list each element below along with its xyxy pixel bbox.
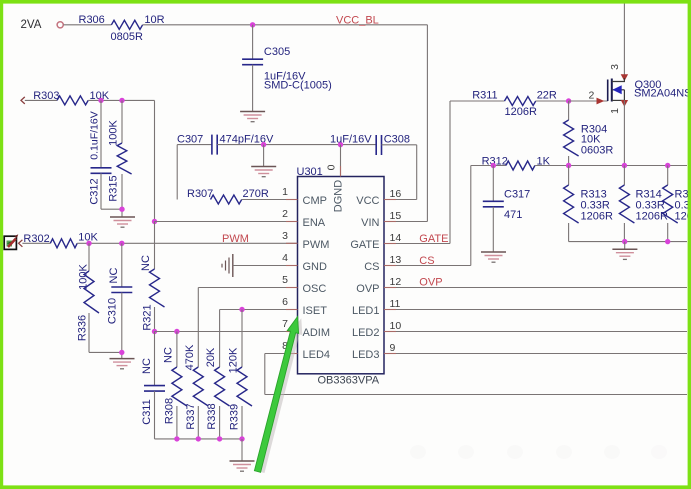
svg-text:1206R: 1206R <box>636 211 668 223</box>
svg-text:C317: C317 <box>504 189 530 201</box>
resistor R321 bottom lead <box>154 307 156 332</box>
wire VCC_BL riser down to VIN <box>426 25 428 222</box>
svg-text:R315: R315 <box>108 175 120 201</box>
wire pin 0 stub to IC <box>340 145 342 177</box>
svg-text:C312: C312 <box>89 178 101 204</box>
svg-text:CS: CS <box>364 261 379 273</box>
resistor R339 zigzag <box>237 367 252 406</box>
svg-text:0.1uF/16V: 0.1uF/16V <box>89 111 101 159</box>
svg-text:GND: GND <box>303 261 328 273</box>
junction dot R336 tap <box>86 241 91 246</box>
svg-text:15: 15 <box>390 210 402 222</box>
resistor R315 top lead <box>121 100 123 143</box>
wire rail ground stub <box>624 242 626 249</box>
transistor Q300 source vertical <box>623 90 625 101</box>
resistor R338 zigzag <box>215 367 230 406</box>
svg-text:R308: R308 <box>163 398 175 424</box>
junction dot C305 tap <box>250 22 255 27</box>
svg-text:PWM: PWM <box>222 233 249 245</box>
resistor R337 zigzag <box>193 367 208 406</box>
resistor R313 top lead <box>568 166 570 186</box>
junction dot R315 C312 ground node <box>119 207 124 212</box>
resistor R321 zigzag <box>150 269 165 307</box>
resistor R304 top lead <box>568 101 570 120</box>
svg-text:R336: R336 <box>77 315 89 341</box>
svg-text:OB3363VPA: OB3363VPA <box>318 375 380 387</box>
junction dot C317 tap <box>491 163 496 168</box>
svg-text:OVP: OVP <box>356 283 379 295</box>
svg-text:16: 16 <box>390 188 402 200</box>
capacitor C310 top lead <box>121 243 123 287</box>
svg-text:R337: R337 <box>185 403 197 429</box>
wire bottom bank rail <box>155 438 243 440</box>
annotation arrow shadow <box>259 318 303 473</box>
svg-text:ISET: ISET <box>303 305 328 317</box>
junction dot bottom rail R314 <box>622 239 627 244</box>
page edge edit icon <box>4 234 18 249</box>
svg-text:1206R: 1206R <box>581 211 613 223</box>
svg-text:LED4: LED4 <box>303 349 331 361</box>
resistor R304 bottom lead <box>568 156 570 166</box>
wire R312 to sense rail <box>535 165 569 167</box>
capacitor C311 plates <box>144 385 165 387</box>
svg-text:7: 7 <box>282 318 288 330</box>
svg-text:22R: 22R <box>537 90 557 102</box>
capacitor C311 bottom lead <box>154 391 156 439</box>
svg-text:5: 5 <box>282 274 288 286</box>
svg-text:ADIM: ADIM <box>303 327 331 339</box>
Q300 gate pin arrow <box>597 98 605 105</box>
resistor R311 zigzag <box>505 97 536 106</box>
terminal circle J-2VA <box>57 22 63 28</box>
resistor R314 zigzag <box>619 185 634 223</box>
wire ground to pin 4 GND <box>233 265 298 267</box>
junction dot ground tap <box>261 142 266 147</box>
junction dot bottom rail third resistor <box>665 239 670 244</box>
resistor R339 bottom lead <box>241 406 243 439</box>
capacitor C305 lead from top rail <box>252 25 254 59</box>
svg-text:0: 0 <box>326 164 338 170</box>
pin stubs right side <box>384 200 396 354</box>
junction dot R338 bottom <box>217 436 222 441</box>
svg-text:VCC_BL: VCC_BL <box>336 15 379 27</box>
junction dot R337 bottom <box>196 436 201 441</box>
resistor R315 top lead <box>667 166 669 186</box>
ground below C307 rail <box>251 167 276 177</box>
svg-text:6: 6 <box>282 296 288 308</box>
svg-text:VIN: VIN <box>361 217 379 229</box>
svg-text:GATE: GATE <box>350 239 379 251</box>
resistor R315 zigzag <box>117 143 131 174</box>
pin 0 stub tint <box>340 166 342 177</box>
junction dot R308 bottom <box>174 436 179 441</box>
transistor Q300 body arrow <box>612 85 621 94</box>
wire riser to R312 <box>471 165 506 167</box>
svg-text:C308: C308 <box>384 133 410 145</box>
svg-text:ENA: ENA <box>303 217 326 229</box>
transistor Q300 drain line from top <box>623 4 625 76</box>
IC U301 body <box>298 177 385 374</box>
svg-text:9: 9 <box>390 342 396 354</box>
junction dot C310 R336 ground node <box>119 350 124 355</box>
resistor R312 zigzag <box>506 161 535 170</box>
svg-text:1: 1 <box>609 108 621 114</box>
wire C312 bottom to R315 bottom <box>101 208 122 210</box>
wire to pin 2 ENA <box>155 221 298 223</box>
svg-text:11: 11 <box>390 298 401 310</box>
wire R306 to VCC_BL corner <box>143 24 428 26</box>
wire ISET line <box>220 309 298 311</box>
wire pin 11 LED1 to edge <box>384 309 687 311</box>
junction dot sense node third resistor <box>665 163 670 168</box>
Q300 drain pin arrow <box>621 74 628 81</box>
terminal R303 input <box>21 97 25 104</box>
resistor R304 zigzag <box>564 120 579 156</box>
svg-text:1206R: 1206R <box>505 106 537 118</box>
resistor R336 zigzag <box>84 271 99 313</box>
resistor R314 bottom lead <box>623 223 625 242</box>
svg-text:LED3: LED3 <box>352 349 380 361</box>
transistor Q300 source stub <box>612 99 625 101</box>
capacitor C312 plates <box>91 167 112 169</box>
capacitor C305 lead to ground <box>252 65 254 112</box>
resistor R337 bottom lead <box>197 406 199 439</box>
resistor R339 top lead <box>241 310 243 368</box>
svg-text:20K: 20K <box>205 347 217 367</box>
svg-text:R338: R338 <box>206 403 218 429</box>
junction dot R315 tap <box>119 98 124 103</box>
resistor R315 zigzag <box>663 185 678 223</box>
svg-text:LED2: LED2 <box>352 327 380 339</box>
resistor R338 top lead <box>219 310 221 368</box>
svg-text:VCC: VCC <box>356 195 379 207</box>
wire R307 to pin 1 CMP <box>242 199 298 201</box>
resistor R308 zigzag <box>172 367 187 406</box>
capacitor C317 top lead <box>492 166 494 202</box>
svg-text:NC: NC <box>141 358 153 374</box>
junction dot ADIM node <box>152 329 157 334</box>
resistor R308 top lead <box>176 332 178 368</box>
svg-text:C310: C310 <box>107 298 119 324</box>
resistor R302 zigzag <box>50 239 77 248</box>
wire riser to R311 <box>450 100 505 102</box>
svg-text:U301: U301 <box>297 166 323 178</box>
resistor R313 zigzag <box>564 185 579 223</box>
svg-text:NC: NC <box>108 268 120 284</box>
svg-text:OVP: OVP <box>419 276 442 288</box>
svg-text:PWM: PWM <box>303 239 330 251</box>
junction dot sense node Q300 source <box>622 163 627 168</box>
resistor R306 zigzag <box>111 20 142 29</box>
svg-text:C307: C307 <box>177 134 203 146</box>
capacitor C305 plates <box>242 58 263 60</box>
wire sense bottom rail <box>569 241 687 243</box>
wire pin 9 LED3 to edge <box>384 353 687 355</box>
svg-text:NC: NC <box>140 255 152 271</box>
wire C307 left plate loop <box>177 144 212 146</box>
wire pin 12 OVP to edge <box>384 287 687 289</box>
Q300 source pin arrow <box>621 100 628 107</box>
junction dot gate node <box>566 98 571 103</box>
wire C308 right plate to VCC pin 16 <box>382 144 417 146</box>
svg-text:0603R: 0603R <box>581 145 613 157</box>
wire ADIM line <box>155 331 298 333</box>
ground below resistor bank <box>230 461 255 471</box>
capacitor C310 bottom lead <box>121 293 123 359</box>
junction dot sense node R313 <box>566 163 571 168</box>
resistor R314 top lead <box>623 166 625 186</box>
resistor R315 bottom lead <box>121 174 123 217</box>
resistor R307 zigzag <box>211 195 242 204</box>
svg-text:10: 10 <box>390 320 402 332</box>
wire terminal to R302 <box>22 242 50 244</box>
capacitor C317 bottom lead <box>492 207 494 252</box>
wire pin 13 CS to riser <box>384 265 471 267</box>
svg-text:470K: 470K <box>184 344 196 370</box>
wire ENA riser down <box>154 100 156 221</box>
svg-text:471: 471 <box>504 209 522 221</box>
capacitor C308 plates <box>375 135 377 155</box>
svg-text:2: 2 <box>282 208 288 220</box>
svg-text:R321: R321 <box>142 304 154 330</box>
resistor R336 bottom lead and jog <box>88 313 90 352</box>
svg-text:14: 14 <box>390 232 402 244</box>
wire C307 right plate to C308 <box>217 144 376 146</box>
wire 2VA terminal to R306 <box>64 24 112 26</box>
transistor Q300 body line <box>612 89 625 91</box>
svg-text:4: 4 <box>282 252 288 264</box>
svg-text:270R: 270R <box>243 188 269 200</box>
wire R303 to ENA riser <box>88 99 154 101</box>
svg-text:2VA: 2VA <box>21 19 42 31</box>
wire to pin 15 VIN <box>384 221 427 223</box>
svg-text:1: 1 <box>282 186 288 198</box>
wire R311 to gate node <box>536 100 569 102</box>
wire gate node to Q300 gate <box>569 100 608 102</box>
transistor Q300 gate bar <box>607 80 609 102</box>
ground below sense rail <box>612 249 637 259</box>
svg-text:NC: NC <box>162 347 174 363</box>
junction dot ISET R339 tap <box>239 307 244 312</box>
junction dot C310 tap <box>119 241 124 246</box>
svg-text:R339: R339 <box>229 404 241 430</box>
capacitor C317 plates <box>483 200 504 202</box>
junction dot C312 tap <box>98 98 103 103</box>
wire pin 8 LED4 route <box>265 353 298 355</box>
wire pin 14 GATE to riser <box>384 243 450 245</box>
resistor R308 bottom lead <box>176 406 178 439</box>
capacitor C312 lead to bottom <box>100 173 102 209</box>
transistor Q300 channel bar <box>611 79 613 102</box>
wire bank ground stub <box>241 439 243 461</box>
svg-text:12: 12 <box>390 276 402 288</box>
capacitor C307 plates <box>211 135 213 155</box>
svg-text:R311: R311 <box>472 90 497 102</box>
svg-text:CMP: CMP <box>303 195 327 207</box>
resistor R313 bottom lead <box>568 223 570 242</box>
capacitor C311 top lead <box>154 332 156 386</box>
terminal R302 input <box>19 240 23 247</box>
ground below C310 <box>110 359 135 369</box>
svg-text:OSC: OSC <box>303 283 327 295</box>
ground below C305 <box>240 112 265 122</box>
svg-text:13: 13 <box>390 254 402 266</box>
svg-text:SMD-C(1005): SMD-C(1005) <box>264 80 332 92</box>
resistor R321 top lead <box>154 222 156 270</box>
ground at pin 4 GND <box>222 254 233 277</box>
wire sense rail <box>569 165 687 167</box>
svg-text:3: 3 <box>609 64 621 70</box>
ground below C317 <box>481 252 506 262</box>
svg-text:R306: R306 <box>79 14 105 26</box>
svg-text:0805R: 0805R <box>111 31 143 43</box>
capacitor C310 plates <box>111 286 132 288</box>
capacitor C312 lead <box>100 100 102 167</box>
junction dot ADIM R308 tap <box>174 329 179 334</box>
wire R302 to pin 3 PWM <box>77 242 297 244</box>
wire stub to ground <box>263 145 265 167</box>
pin stubs left side <box>286 200 298 354</box>
junction dot ENA node <box>152 219 157 224</box>
resistor R338 bottom lead <box>219 406 221 439</box>
svg-text:DGND: DGND <box>333 180 345 212</box>
resistor R303 zigzag <box>57 96 88 105</box>
annotation arrow pointing at ISET ADIM pins <box>254 317 298 473</box>
svg-text:1uF/16V: 1uF/16V <box>330 133 372 145</box>
svg-text:100K: 100K <box>108 119 120 145</box>
svg-text:R307: R307 <box>187 188 213 200</box>
wire pin 10 LED2 to edge <box>384 331 687 333</box>
svg-text:10R: 10R <box>144 14 164 26</box>
resistor R337 top lead <box>197 288 199 368</box>
wire terminal to R303 <box>25 99 57 101</box>
svg-text:C305: C305 <box>264 46 290 58</box>
resistor R336 top lead <box>88 243 90 271</box>
svg-text:SM2A04NSF: SM2A04NSF <box>634 88 691 100</box>
svg-text:R303: R303 <box>33 90 59 102</box>
svg-text:LED1: LED1 <box>352 305 380 317</box>
resistor R315 bottom lead <box>667 223 669 242</box>
wire Q300 source to sense rail <box>623 100 625 165</box>
wire OSC line <box>198 287 297 289</box>
svg-text:3: 3 <box>282 230 288 242</box>
transistor Q300 drain stub <box>612 78 625 82</box>
svg-text:R302: R302 <box>23 233 49 245</box>
svg-text:2: 2 <box>588 89 594 101</box>
junction dot DGND pin0 tap <box>338 142 343 147</box>
svg-text:C311: C311 <box>141 399 153 424</box>
junction dot R339 bottom <box>239 436 244 441</box>
ground below R315 <box>110 217 135 227</box>
